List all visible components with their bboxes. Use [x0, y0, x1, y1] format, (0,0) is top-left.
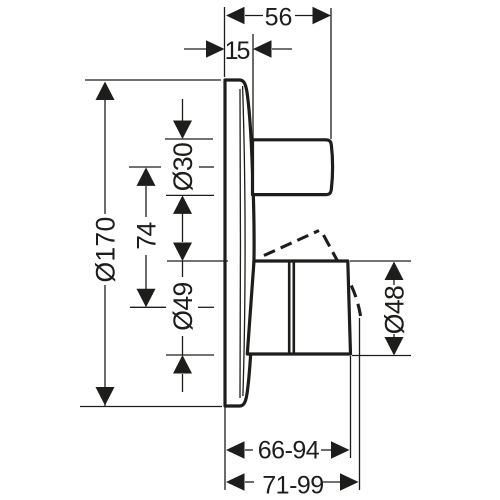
svg-text:Ø170: Ø170	[91, 216, 121, 282]
svg-text:74: 74	[132, 223, 162, 250]
svg-text:66-94: 66-94	[258, 437, 320, 465]
svg-text:Ø30: Ø30	[168, 143, 198, 192]
svg-text:15: 15	[225, 37, 250, 65]
svg-text:Ø48: Ø48	[380, 286, 410, 335]
svg-text:Ø49: Ø49	[168, 282, 198, 331]
svg-text:56: 56	[265, 4, 293, 32]
svg-text:71-99: 71-99	[262, 472, 323, 500]
